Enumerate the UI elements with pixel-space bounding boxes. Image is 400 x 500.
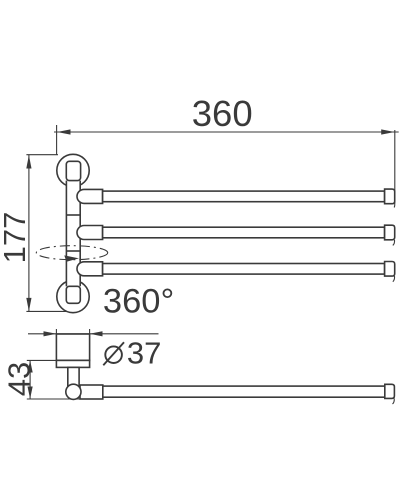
bottom mount square bbox=[66, 286, 80, 303]
extension line right of 360 dim bbox=[393, 130, 396, 208]
arm 2 end cap bbox=[385, 225, 395, 240]
dimension 177 left: line bbox=[28, 155, 30, 311]
top mount circle bbox=[57, 154, 89, 186]
dimension 43 arrow bottom (points down) bbox=[28, 387, 33, 399]
dimension 43 arrow top (points up) bbox=[28, 360, 33, 372]
wall cup body bbox=[56, 334, 89, 360]
svg-text:177: 177 bbox=[0, 212, 32, 264]
extension line top of 177 dim bbox=[26, 154, 58, 156]
svg-text:360°: 360° bbox=[103, 283, 174, 321]
stem bbox=[68, 367, 79, 391]
arm 1 bar bbox=[103, 191, 385, 202]
arm 3 hub bbox=[77, 262, 103, 276]
extension line left of 360 dim bbox=[56, 125, 58, 155]
extension line bottom of 43 dim bbox=[27, 398, 103, 400]
arm 2 hub bbox=[77, 226, 103, 240]
arm 3 end cap bbox=[385, 262, 395, 277]
dimension 360 arrow left bbox=[57, 129, 71, 134]
post joint line 2 bbox=[66, 250, 80, 252]
side cap tail bbox=[393, 398, 395, 404]
svg-text:37: 37 bbox=[127, 336, 161, 371]
rotation arrowhead bbox=[64, 255, 79, 261]
arm 1 end cap bbox=[385, 189, 395, 204]
dimension 360 top: line bbox=[54, 131, 399, 133]
diameter symbol bbox=[103, 342, 124, 365]
post joint line 1 bbox=[66, 214, 80, 216]
dimension 177 arrow top bbox=[26, 155, 31, 169]
dimension 177 arrow bottom bbox=[26, 298, 31, 312]
side hub bbox=[80, 385, 103, 399]
wall cup flange bbox=[56, 360, 89, 367]
diameter 37 arrow left (points right) bbox=[44, 331, 57, 336]
post right edge bbox=[79, 181, 81, 287]
dimension 43 line bbox=[29, 360, 31, 399]
svg-text:43: 43 bbox=[1, 362, 36, 396]
bottom mount circle bbox=[57, 280, 89, 312]
diameter 37 dimension line bbox=[28, 333, 159, 335]
arm 3 cap tail bbox=[393, 276, 395, 282]
extension line bottom of 177 dim bbox=[26, 310, 66, 312]
arm 2 cap tail bbox=[393, 240, 395, 246]
arm 3 bar bbox=[103, 264, 385, 275]
extension line top of 43 dim bbox=[27, 359, 57, 361]
rotation ellipse (dash-dot centerline) bbox=[36, 246, 107, 260]
top mount square bbox=[66, 161, 80, 180]
diameter 37 arrow right (points left) bbox=[90, 331, 103, 336]
side bar bbox=[103, 386, 385, 397]
post body fill bbox=[66, 168, 80, 296]
arm 2 bar bbox=[103, 227, 385, 238]
arm 1 hub bbox=[77, 189, 103, 203]
cup extension tick right bbox=[89, 329, 91, 335]
cup extension tick left bbox=[55, 329, 57, 335]
side end cap bbox=[385, 384, 395, 398]
post left edge bbox=[65, 181, 67, 287]
dimension 360 arrow right bbox=[381, 129, 395, 134]
pivot circle bbox=[66, 384, 81, 399]
svg-text:360: 360 bbox=[192, 93, 253, 134]
